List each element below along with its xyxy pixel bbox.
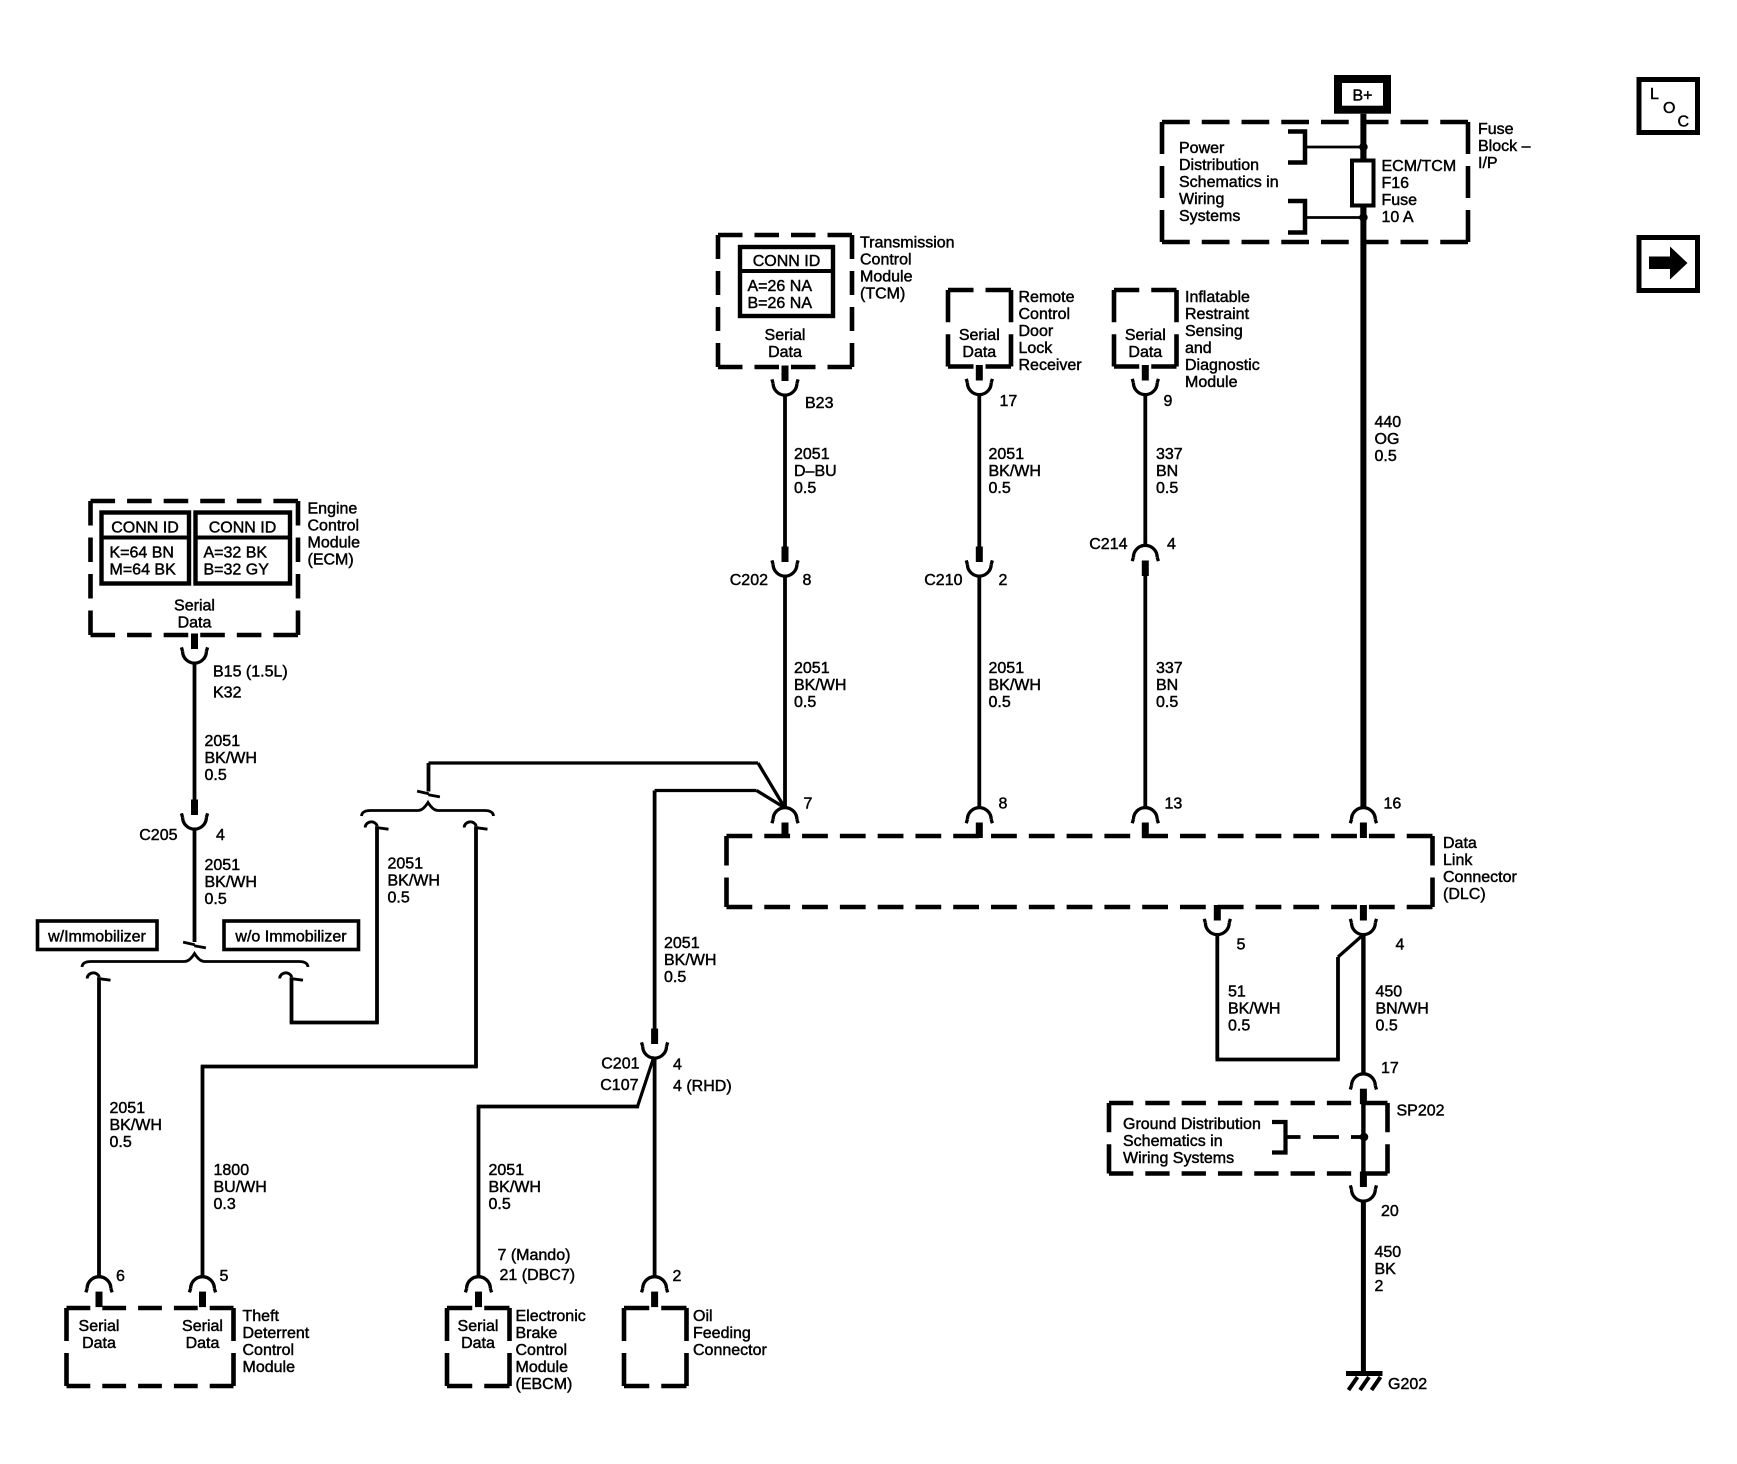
svg-text:Inflatable: Inflatable (1185, 289, 1250, 306)
wire 450 BN/WH DLC pin 4 to splice (1361, 933, 1365, 1075)
connector pin 6 at theft deterrent (86, 1268, 125, 1307)
svg-text:Fuse: Fuse (1382, 192, 1418, 209)
svg-text:Schematics in: Schematics in (1179, 174, 1279, 191)
svg-text:4 (RHD): 4 (RHD) (673, 1078, 732, 1095)
svg-text:BN: BN (1156, 463, 1178, 480)
branch hook to theft deterrent pin 5 (464, 822, 487, 829)
bracket to power distribution (top) (1288, 132, 1363, 163)
svg-text:BN: BN (1156, 677, 1178, 694)
svg-text:Ground Distribution: Ground Distribution (1123, 1116, 1261, 1133)
svg-text:C202: C202 (730, 572, 768, 589)
svg-text:Data: Data (186, 1335, 220, 1352)
svg-text:Serial: Serial (1125, 327, 1166, 344)
label 2051 BK/WH 0.5 (remote lower) (989, 660, 1041, 711)
svg-text:Connector: Connector (693, 1342, 767, 1359)
svg-text:20: 20 (1381, 1203, 1399, 1220)
variant box w/o Immobilizer (224, 921, 359, 950)
label Inflatable Restraint Sensing and Diagnostic Module (1185, 289, 1260, 391)
label 2051 BK/WH 0.5 (EBCM) (489, 1162, 541, 1213)
svg-text:337: 337 (1156, 660, 1183, 677)
svg-text:Control: Control (516, 1342, 568, 1359)
svg-text:(TCM): (TCM) (860, 286, 905, 303)
DLC pin 4 (1350, 905, 1404, 954)
svg-text:BK/WH: BK/WH (388, 873, 440, 890)
svg-text:1800: 1800 (214, 1162, 250, 1179)
label Theft Deterrent Control Module (243, 1308, 310, 1376)
label 337 BN 0.5 (lower) (1156, 660, 1183, 711)
svg-text:Brake: Brake (516, 1325, 558, 1342)
svg-text:4: 4 (1167, 536, 1176, 553)
DLC pin 5 (1204, 905, 1245, 954)
svg-text:0.5: 0.5 (110, 1134, 132, 1151)
svg-text:Receiver: Receiver (1019, 357, 1083, 374)
label 2051 D-BU 0.5 (794, 446, 837, 497)
svg-text:Module: Module (1185, 374, 1238, 391)
svg-text:Restraint: Restraint (1185, 306, 1250, 323)
svg-text:BK/WH: BK/WH (794, 677, 846, 694)
svg-text:Feeding: Feeding (693, 1325, 751, 1342)
next-page arrow box (1639, 238, 1698, 291)
connector pin 17 at remote receiver (966, 365, 1017, 410)
label ECM/TCM F16 Fuse 10 A (1382, 158, 1457, 226)
wire 2051 BK/WH to theft deterrent pin 6 (97, 977, 101, 1278)
battery feed terminal B+ (1338, 79, 1387, 110)
svg-text:Sensing: Sensing (1185, 323, 1243, 340)
svg-text:2: 2 (999, 572, 1008, 589)
svg-text:C: C (1678, 114, 1690, 131)
svg-text:0.5: 0.5 (1375, 448, 1397, 465)
svg-text:0.3: 0.3 (214, 1196, 236, 1213)
svg-text:(ECM): (ECM) (308, 552, 354, 569)
connector pin 17 at SP202 (1350, 1060, 1399, 1104)
svg-text:Data: Data (962, 344, 996, 361)
svg-text:Module: Module (860, 269, 913, 286)
svg-text:0.5: 0.5 (989, 694, 1011, 711)
label Serial Data (remote) (959, 327, 1000, 361)
svg-text:Control: Control (308, 518, 360, 535)
svg-text:Module: Module (516, 1359, 569, 1376)
svg-text:G202: G202 (1388, 1376, 1427, 1393)
svg-text:A=26 NA: A=26 NA (748, 278, 813, 295)
fuse block box (Fuse Block - I/P) (1162, 122, 1468, 242)
module Oil Feeding Connector box (624, 1308, 687, 1386)
svg-text:Serial: Serial (174, 598, 215, 615)
svg-text:C201: C201 (601, 1056, 639, 1073)
brace second split (362, 803, 494, 817)
svg-text:450: 450 (1376, 984, 1403, 1001)
svg-text:Serial: Serial (182, 1318, 223, 1335)
svg-text:Link: Link (1443, 852, 1473, 869)
svg-text:K32: K32 (213, 685, 242, 702)
data link connector DLC box (727, 836, 1433, 907)
svg-text:and: and (1185, 340, 1212, 357)
label Oil Feeding Connector (693, 1308, 767, 1359)
svg-text:Distribution: Distribution (1179, 157, 1259, 174)
label 2051 BK/WH 0.5 (second brace) (388, 856, 440, 907)
connector pin 20 at SP202 (1350, 1172, 1399, 1221)
svg-text:I/P: I/P (1478, 155, 1498, 172)
svg-text:8: 8 (999, 796, 1008, 813)
wire serial data branch to C201 (655, 791, 784, 1030)
wire 51 BK/WH DLC pin 5 loop (1216, 933, 1362, 1059)
svg-text:K=64 BN: K=64 BN (110, 545, 174, 562)
svg-text:Serial: Serial (765, 327, 806, 344)
svg-text:0.5: 0.5 (1376, 1018, 1398, 1035)
svg-text:BK/WH: BK/WH (989, 463, 1041, 480)
svg-text:10 A: 10 A (1382, 209, 1414, 226)
DLC pin 13 (1132, 796, 1182, 839)
svg-text:Data: Data (1128, 344, 1162, 361)
svg-text:0.5: 0.5 (1156, 694, 1178, 711)
label Serial Data (theft 6) (79, 1318, 120, 1352)
wire C107 branch to EBCM (477, 1057, 654, 1278)
connector pin B15/K32 at ECM (181, 634, 287, 702)
svg-text:51: 51 (1228, 984, 1246, 1001)
label Serial Data (EBCM) (458, 1318, 499, 1352)
svg-text:2051: 2051 (989, 446, 1025, 463)
bracket to power distribution (bottom) (1288, 201, 1363, 233)
svg-text:BK/WH: BK/WH (489, 1179, 541, 1196)
label 2051 BK/WH 0.5 (C201) (664, 935, 716, 986)
svg-text:Theft: Theft (243, 1308, 280, 1325)
svg-text:A=32 BK: A=32 BK (204, 545, 268, 562)
svg-text:17: 17 (1000, 393, 1018, 410)
label Serial Data (TCM) (765, 327, 806, 361)
svg-text:C214: C214 (1089, 536, 1127, 553)
module EBCM box (447, 1308, 510, 1386)
label 337 BN 0.5 (upper) (1156, 446, 1183, 497)
svg-text:2051: 2051 (205, 733, 241, 750)
svg-text:OG: OG (1375, 431, 1400, 448)
svg-text:4: 4 (216, 827, 225, 844)
svg-text:Data: Data (82, 1335, 116, 1352)
svg-text:BK/WH: BK/WH (1228, 1001, 1280, 1018)
label 450 BK 2 (1375, 1244, 1402, 1295)
svg-text:B=32 GY: B=32 GY (204, 562, 270, 579)
brace immobilizer split (82, 954, 308, 968)
svg-text:Diagnostic: Diagnostic (1185, 357, 1260, 374)
label 2051 BK/WH 0.5 (TCM lower) (794, 660, 846, 711)
svg-text:BU/WH: BU/WH (214, 1179, 267, 1196)
svg-text:Lock: Lock (1019, 340, 1054, 357)
svg-text:B=26 NA: B=26 NA (748, 295, 813, 312)
wire through fuse (1360, 147, 1366, 218)
wire 2051 BK/WH C202 to DLC pin 7 (783, 575, 787, 809)
wire end feeding immobilizer brace (183, 942, 206, 948)
label Serial Data (theft 5) (182, 1318, 223, 1352)
wire 2051 BK/WH ECM to C205 (193, 662, 197, 800)
label SP202 (1397, 1103, 1445, 1120)
label 450 BN/WH 0.5 (1376, 984, 1429, 1035)
wire 2051 BK/WH C205 to immobilizer split (193, 828, 197, 942)
wire 440 OG from fuse block to DLC pin 16 (1360, 206, 1366, 810)
wire 2051 BK/WH remote to C210 (977, 393, 981, 547)
svg-text:Control: Control (860, 252, 912, 269)
module Remote Control Door Lock Receiver box (948, 290, 1011, 367)
connector C202 pin 8 (730, 547, 812, 590)
branch hook w/o immobilizer side (280, 973, 303, 980)
svg-text:2051: 2051 (794, 660, 830, 677)
svg-text:2: 2 (1375, 1278, 1384, 1295)
svg-text:BK/WH: BK/WH (205, 750, 257, 767)
svg-text:O: O (1663, 100, 1675, 117)
label EBCM pin 7 (Mando) 21 (DBC7) (498, 1247, 576, 1284)
branch hook to immobilizer wire (365, 822, 388, 829)
label Transmission Control Module (TCM) (860, 235, 955, 303)
svg-text:0.5: 0.5 (388, 890, 410, 907)
svg-text:CONN ID: CONN ID (753, 253, 821, 270)
svg-text:C107: C107 (600, 1077, 638, 1094)
connector C201 / C107 pin 4 (600, 1029, 731, 1096)
svg-text:C210: C210 (924, 572, 962, 589)
svg-text:Module: Module (243, 1359, 296, 1376)
svg-text:M=64 BK: M=64 BK (110, 562, 177, 579)
svg-text:8: 8 (803, 572, 812, 589)
svg-text:CONN ID: CONN ID (111, 520, 179, 537)
module Inflatable Restraint Sensing and Diagnostic Module box (1114, 290, 1177, 367)
wire C201 to oil feeding connector (653, 1057, 657, 1278)
svg-text:2051: 2051 (110, 1100, 146, 1117)
svg-text:C205: C205 (139, 827, 177, 844)
svg-text:BK/WH: BK/WH (989, 677, 1041, 694)
connector C205 pin 4 (139, 800, 225, 845)
label Remote Control Door Lock Receiver (1019, 289, 1083, 374)
svg-text:2051: 2051 (664, 935, 700, 952)
svg-text:4: 4 (673, 1057, 682, 1074)
junction dot fuse top (1359, 143, 1368, 152)
wire horizontal serial data bus to DLC pin 7 (429, 763, 785, 807)
label Fuse Block - I/P (1478, 121, 1531, 172)
svg-text:BK/WH: BK/WH (205, 874, 257, 891)
label 2051 BK/WH 0.5 (ECM lower) (205, 857, 257, 908)
connector pin 9 at inflatable module (1132, 365, 1172, 410)
svg-text:BK: BK (1375, 1261, 1397, 1278)
connector pin B23 at TCM (772, 366, 834, 413)
svg-text:16: 16 (1384, 796, 1402, 813)
label 2051 BK/WH 0.5 (ECM upper) (205, 733, 257, 784)
svg-text:Remote: Remote (1019, 289, 1075, 306)
svg-text:337: 337 (1156, 446, 1183, 463)
svg-text:0.5: 0.5 (205, 767, 227, 784)
svg-text:7: 7 (804, 796, 813, 813)
svg-text:7 (Mando): 7 (Mando) (498, 1247, 571, 1264)
svg-text:BK/WH: BK/WH (110, 1117, 162, 1134)
svg-text:Engine: Engine (308, 501, 358, 518)
svg-text:Power: Power (1179, 140, 1225, 157)
wire 337 BN C214 to DLC pin 13 (1143, 576, 1147, 809)
connector pin 2 at oil feeding connector (642, 1268, 682, 1307)
svg-text:Data: Data (1443, 835, 1477, 852)
svg-text:6: 6 (116, 1268, 125, 1285)
wire drop from bus to second brace (427, 763, 431, 792)
svg-text:Schematics in: Schematics in (1123, 1133, 1223, 1150)
label Ground Distribution Schematics in Wiring Systems (1123, 1116, 1261, 1167)
svg-text:5: 5 (220, 1268, 229, 1285)
connector C214 pin 4 (1089, 536, 1176, 576)
variant box w/Immobilizer (38, 921, 158, 950)
bracket to ground distribution (1272, 1122, 1363, 1153)
svg-text:0.5: 0.5 (205, 891, 227, 908)
svg-text:4: 4 (1396, 937, 1405, 954)
DLC pin 7 (772, 796, 813, 839)
svg-text:17: 17 (1381, 1060, 1399, 1077)
wire 337 BN module to C214 (1143, 393, 1147, 546)
svg-text:9: 9 (1164, 393, 1173, 410)
svg-text:Door: Door (1019, 323, 1054, 340)
loc reference box L O C (1639, 80, 1698, 133)
ground symbol G202 (1346, 1374, 1427, 1394)
svg-text:Data: Data (768, 344, 802, 361)
svg-text:0.5: 0.5 (664, 969, 686, 986)
svg-text:F16: F16 (1382, 175, 1410, 192)
svg-text:2051: 2051 (794, 446, 830, 463)
svg-text:ECM/TCM: ECM/TCM (1382, 158, 1457, 175)
svg-text:Data: Data (461, 1335, 495, 1352)
label 440 OG 0.5 (1375, 414, 1402, 465)
svg-text:0.5: 0.5 (1228, 1018, 1250, 1035)
wire 2051 BK/WH C210 to DLC pin 8 (977, 575, 981, 809)
svg-text:2: 2 (673, 1268, 682, 1285)
label Serial Data (inflatable) (1125, 327, 1166, 361)
svg-text:Transmission: Transmission (860, 235, 955, 252)
svg-text:SP202: SP202 (1397, 1103, 1445, 1120)
module TCM box (718, 235, 852, 367)
svg-text:(EBCM): (EBCM) (516, 1376, 573, 1393)
module Theft Deterrent Control Module box (67, 1308, 234, 1386)
svg-text:13: 13 (1165, 796, 1183, 813)
svg-text:Wiring: Wiring (1179, 191, 1224, 208)
svg-text:0.5: 0.5 (989, 480, 1011, 497)
svg-text:2051: 2051 (989, 660, 1025, 677)
wire 1800 BU/WH branch to theft deterrent pin 5 (201, 826, 478, 1277)
svg-text:(DLC): (DLC) (1443, 886, 1486, 903)
svg-text:2051: 2051 (205, 857, 241, 874)
DLC pin 16 (1350, 796, 1401, 839)
DLC pin 8 (966, 796, 1007, 839)
svg-text:Serial: Serial (79, 1318, 120, 1335)
svg-text:0.5: 0.5 (794, 694, 816, 711)
svg-text:Systems: Systems (1179, 208, 1240, 225)
svg-text:BK/WH: BK/WH (664, 952, 716, 969)
svg-text:21 (DBC7): 21 (DBC7) (500, 1267, 576, 1284)
splice pack SP202 ground distribution box (1109, 1103, 1388, 1174)
svg-text:5: 5 (1237, 937, 1246, 954)
svg-text:Connector: Connector (1443, 869, 1517, 886)
svg-text:Serial: Serial (959, 327, 1000, 344)
svg-text:B15 (1.5L): B15 (1.5L) (213, 664, 288, 681)
CONN ID table ECM K/M (102, 513, 190, 584)
svg-text:Control: Control (243, 1342, 295, 1359)
svg-text:D–BU: D–BU (794, 463, 837, 480)
svg-text:BN/WH: BN/WH (1376, 1001, 1429, 1018)
junction dot fuse bottom (1359, 213, 1368, 222)
svg-text:L: L (1650, 86, 1659, 103)
label Engine Control Module (ECM) (308, 501, 361, 569)
svg-text:Control: Control (1019, 306, 1071, 323)
module ECM box (91, 501, 299, 635)
label Data Link Connector (DLC) (1443, 835, 1517, 903)
svg-text:w/Immobilizer: w/Immobilizer (47, 929, 146, 946)
svg-text:0.5: 0.5 (1156, 480, 1178, 497)
fuse F16 ECM/TCM 10 A (1352, 161, 1374, 206)
svg-text:0.5: 0.5 (794, 480, 816, 497)
label 51 BK/WH 0.5 (1228, 984, 1280, 1035)
wire 2051 D-BU TCM to C202 (783, 394, 787, 547)
svg-text:Oil: Oil (693, 1308, 713, 1325)
connector pin at EBCM (465, 1277, 491, 1307)
svg-text:0.5: 0.5 (489, 1196, 511, 1213)
junction dot SP202 (1360, 1133, 1369, 1142)
svg-text:450: 450 (1375, 1244, 1402, 1261)
svg-text:Module: Module (308, 535, 361, 552)
svg-text:Data: Data (178, 615, 212, 632)
svg-text:440: 440 (1375, 414, 1402, 431)
svg-text:2051: 2051 (388, 856, 424, 873)
svg-text:w/o Immobilizer: w/o Immobilizer (234, 929, 347, 946)
label 2051 BK/WH 0.5 (remote upper) (989, 446, 1041, 497)
label 2051 BK/WH 0.5 (theft 6) (110, 1100, 162, 1151)
svg-text:Block –: Block – (1478, 138, 1531, 155)
svg-text:CONN ID: CONN ID (209, 520, 277, 537)
branch hook theft deterrent side (87, 973, 110, 980)
wire 450 BK to ground G202 (1361, 1200, 1366, 1372)
label Power Distribution Schematics in Wiring Systems (1179, 140, 1279, 225)
svg-text:2051: 2051 (489, 1162, 525, 1179)
label Serial Data (ECM) (174, 598, 215, 632)
connector pin 5 at theft deterrent (189, 1268, 228, 1307)
svg-text:B23: B23 (805, 395, 834, 412)
connector C210 pin 2 (924, 547, 1007, 590)
svg-text:Wiring Systems: Wiring Systems (1123, 1150, 1234, 1167)
wire w/o immobilizer branch to second brace (290, 826, 379, 1022)
label 1800 BU/WH 0.3 (214, 1162, 267, 1213)
svg-text:Electronic: Electronic (516, 1308, 586, 1325)
svg-text:B+: B+ (1352, 88, 1372, 105)
svg-text:Serial: Serial (458, 1318, 499, 1335)
wire end feeding second brace (417, 791, 440, 797)
CONN ID table ECM A/B (196, 513, 291, 584)
wire B+ feed to fuse (1360, 114, 1366, 161)
CONN ID table TCM (740, 247, 833, 316)
svg-text:Fuse: Fuse (1478, 121, 1514, 138)
wire through SP202 box (1361, 1104, 1365, 1173)
label Electronic Brake Control Module (EBCM) (516, 1308, 586, 1393)
svg-text:Deterrent: Deterrent (243, 1325, 310, 1342)
